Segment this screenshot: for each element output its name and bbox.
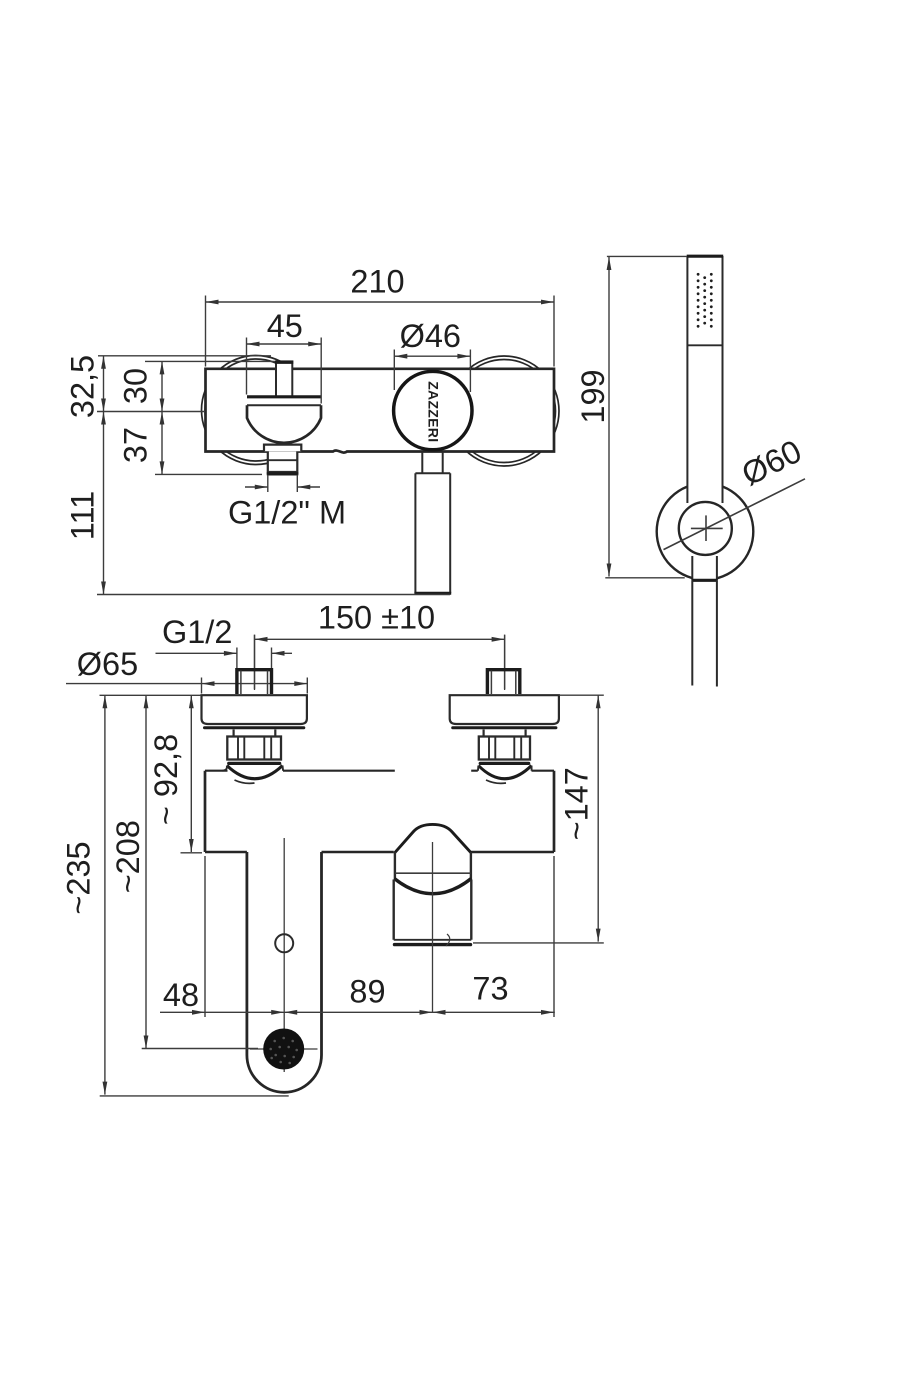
handle cup	[247, 405, 321, 443]
dim 150 +-10	[255, 635, 505, 689]
dim ~208	[142, 695, 258, 1048]
right rosette	[450, 695, 559, 728]
svg-text:~ 92,8: ~ 92,8	[148, 734, 184, 825]
hose connector bold edge	[692, 579, 718, 582]
handle side edges	[687, 256, 722, 503]
ext line lever-top level	[145, 360, 275, 362]
dim O65 (left rosette)	[66, 678, 307, 694]
left valve neck	[234, 730, 276, 737]
right nut	[479, 737, 530, 764]
left valve centerline	[254, 635, 256, 690]
ext line rosette-top level	[98, 355, 271, 357]
svg-text:~147: ~147	[559, 767, 595, 840]
svg-text:48: 48	[163, 977, 199, 1013]
diverter bulge arc	[394, 879, 471, 894]
dim 32,5	[103, 356, 105, 412]
dim 45	[247, 338, 322, 404]
left nut	[227, 737, 281, 764]
svg-text:45: 45	[267, 308, 303, 344]
spout centerline	[283, 838, 285, 1072]
svg-text:111: 111	[64, 491, 100, 540]
shared ext line rosette-top left	[100, 694, 202, 696]
svg-text:30: 30	[118, 368, 154, 404]
right valve centerline	[504, 635, 506, 690]
holder inner circle	[679, 502, 732, 555]
svg-text:ZAZZERI: ZAZZERI	[426, 381, 442, 442]
shower hose connector	[414, 473, 451, 593]
diverter chord line	[395, 872, 470, 874]
dim 30	[161, 361, 163, 411]
ext line body centerline level	[97, 411, 205, 413]
svg-text:Ø65: Ø65	[77, 646, 138, 682]
handle head divider line	[687, 344, 722, 346]
left nipple G1/2	[237, 670, 272, 694]
outlet flange under cup	[264, 445, 301, 452]
left rosette O65	[202, 695, 307, 728]
O60 leader diagonal	[664, 479, 806, 550]
outlet nipple G1/2	[267, 452, 299, 475]
body right edge	[553, 771, 556, 852]
svg-text:32,5: 32,5	[64, 355, 100, 418]
aerator (black)	[250, 1029, 318, 1070]
holder center crosshair	[691, 515, 723, 541]
diverter bottom bold	[395, 943, 471, 946]
svg-text:G1/2: G1/2	[162, 614, 232, 650]
svg-text:210: 210	[350, 264, 404, 300]
hose below holder	[692, 580, 717, 686]
hand shower handle (front, covers ring)	[687, 254, 724, 531]
body top segments	[205, 770, 554, 772]
diverter knob	[394, 824, 472, 1013]
logo roundel O46	[394, 371, 472, 449]
hose stub under roundel	[422, 452, 442, 474]
dim 111	[103, 412, 105, 595]
svg-text:G1/2" M: G1/2" M	[228, 495, 346, 531]
left rosette circle	[202, 356, 311, 465]
ext line fitting bottom level	[155, 473, 262, 475]
holder outer ring O60	[657, 483, 754, 580]
spout small hole	[275, 934, 293, 952]
diverter cylinder sides	[394, 880, 472, 940]
left washer arc	[223, 766, 284, 784]
diverter bottom thin line	[394, 939, 472, 941]
dim 199	[605, 256, 687, 577]
svg-text:89: 89	[349, 974, 385, 1010]
diverter dome	[395, 824, 471, 852]
mixer body (bottom view)	[205, 771, 554, 852]
dim G1/2 M extension+arrows	[245, 475, 320, 492]
handle lever stem	[275, 361, 293, 396]
right valve neck	[484, 730, 526, 737]
ext line hose bottom level	[97, 594, 450, 596]
dim chain 48/89/73	[160, 856, 555, 1017]
dim 210	[206, 296, 555, 367]
dim ~92,8	[181, 695, 203, 853]
body bottom segments	[205, 851, 554, 853]
right nipple G1/2	[487, 670, 519, 694]
tub spout	[247, 852, 322, 1092]
spray face dots	[697, 273, 713, 328]
handle top plate	[247, 397, 321, 406]
right rosette circle	[449, 356, 559, 466]
dim G1/2 (left nipple)	[156, 648, 293, 670]
svg-text:150 ±10: 150 ±10	[318, 600, 435, 636]
diverter centerline	[432, 842, 434, 1013]
dim ~235	[100, 695, 289, 1096]
svg-text:~235: ~235	[61, 841, 97, 914]
svg-text:73: 73	[472, 971, 508, 1007]
svg-text:Ø46: Ø46	[400, 318, 461, 354]
svg-text:199: 199	[575, 369, 611, 423]
right washer arc	[478, 766, 532, 784]
diverter upper sides	[395, 852, 471, 880]
hose upper (white over ring bottom)	[692, 557, 717, 580]
dim ~147	[473, 695, 604, 943]
body left edge	[204, 771, 207, 852]
dim 37	[161, 412, 163, 475]
handle top edge	[687, 255, 724, 258]
dim O46	[394, 350, 470, 393]
mixer body	[206, 369, 555, 453]
svg-text:~208: ~208	[110, 820, 146, 893]
diverter break squiggle	[446, 934, 450, 946]
svg-text:37: 37	[118, 427, 154, 463]
